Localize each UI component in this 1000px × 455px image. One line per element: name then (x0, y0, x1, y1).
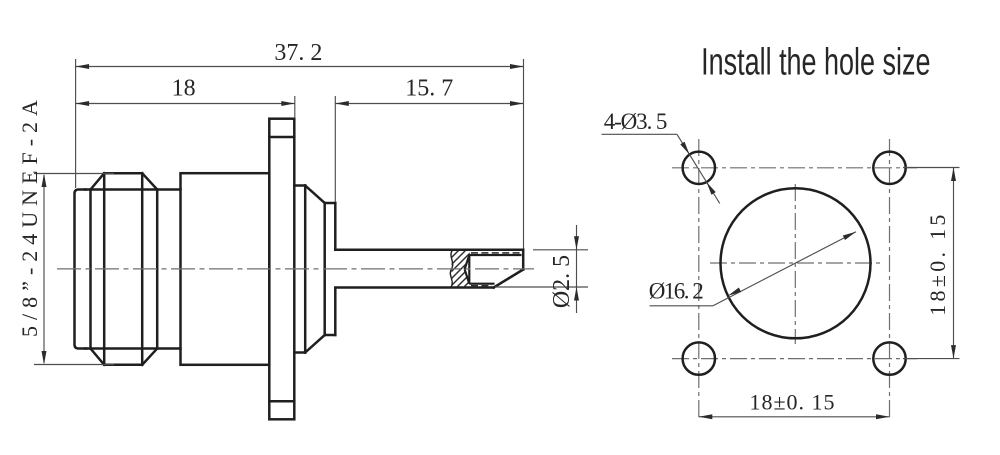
svg-text:Ø2. 5: Ø2. 5 (549, 255, 575, 308)
svg-text:4-Ø3. 5: 4-Ø3. 5 (604, 109, 667, 134)
svg-text:18±0. 15: 18±0. 15 (749, 390, 835, 415)
svg-text:18±0. 15: 18±0. 15 (925, 211, 950, 315)
svg-text:Ø16. 2: Ø16. 2 (649, 279, 704, 304)
svg-text:37. 2: 37. 2 (274, 40, 322, 66)
svg-text:18: 18 (172, 76, 196, 102)
svg-text:Install the hole size: Install the hole size (701, 40, 930, 83)
svg-text:15. 7: 15. 7 (405, 76, 453, 102)
svg-text:5/8”-24UNEF-2A: 5/8”-24UNEF-2A (17, 94, 42, 337)
